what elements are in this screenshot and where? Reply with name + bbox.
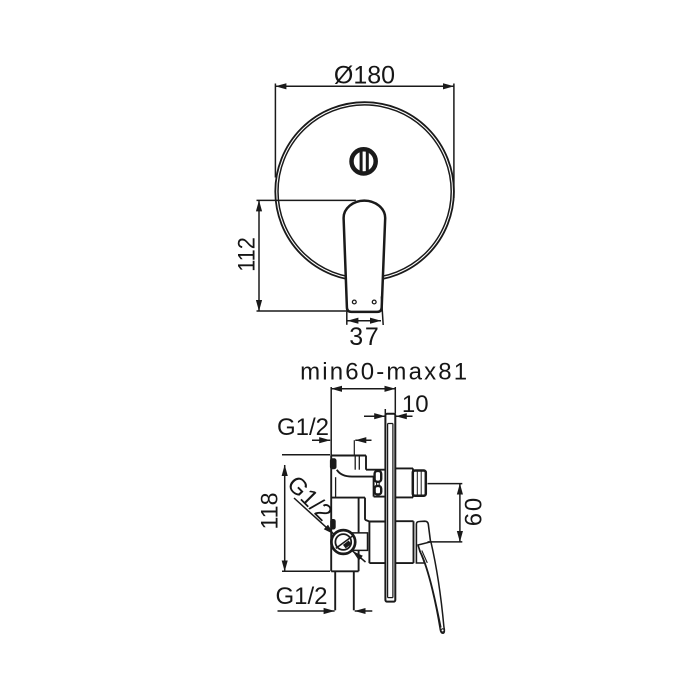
svg-text:G1/2: G1/2 xyxy=(276,583,328,610)
svg-text:37: 37 xyxy=(349,323,379,351)
svg-text:10: 10 xyxy=(402,391,429,418)
svg-text:Ø180: Ø180 xyxy=(334,62,395,90)
svg-text:G1/2: G1/2 xyxy=(282,471,338,527)
svg-text:min60-max81: min60-max81 xyxy=(300,358,467,385)
svg-text:118: 118 xyxy=(257,493,284,530)
svg-text:112: 112 xyxy=(233,237,260,272)
svg-text:60: 60 xyxy=(461,498,488,527)
svg-text:G1/2: G1/2 xyxy=(277,414,329,441)
